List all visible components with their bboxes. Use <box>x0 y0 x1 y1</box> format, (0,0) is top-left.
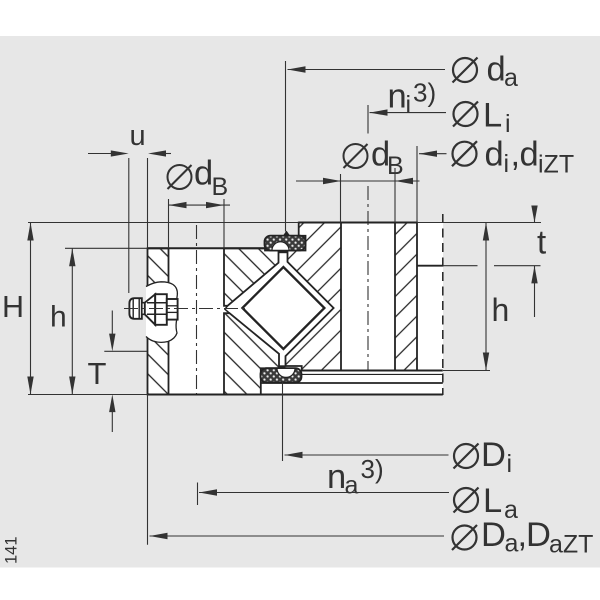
dimension h left <box>71 248 73 394</box>
ring A hatched body upper (right of bolt hole, above grease duct) <box>224 248 279 305</box>
grease nipple hex body <box>155 294 167 325</box>
seal bottom <box>261 368 302 383</box>
centre line bolt hole ring A <box>196 225 198 395</box>
dimension dB right <box>340 174 342 223</box>
svg-text:L: L <box>483 97 502 135</box>
svg-text:D: D <box>526 516 551 554</box>
svg-text:d: d <box>485 136 504 174</box>
svg-text:i: i <box>504 150 510 178</box>
dimension L_a leader with n_a <box>197 483 199 506</box>
dashed bore d_iZT <box>442 214 444 395</box>
svg-text:3): 3) <box>413 78 436 108</box>
svg-text:a: a <box>504 496 518 524</box>
groove apex notch ring A <box>225 306 230 313</box>
dimension T <box>111 311 113 335</box>
svg-text:D: D <box>481 436 506 474</box>
svg-text:i: i <box>507 450 513 478</box>
svg-text:d: d <box>487 51 506 89</box>
svg-text:H: H <box>2 290 24 324</box>
svg-text:i: i <box>505 110 511 138</box>
svg-text:B: B <box>387 152 404 180</box>
label dB left <box>168 165 192 189</box>
svg-text:T: T <box>88 356 107 391</box>
white body ring B <box>287 236 443 371</box>
spacer bar bottom <box>279 365 286 368</box>
svg-text:3): 3) <box>361 454 384 484</box>
dimension u <box>128 158 130 293</box>
svg-text:h: h <box>492 292 510 328</box>
seal bottom lip (white half-moon) <box>277 368 295 377</box>
white body ring A <box>148 248 280 394</box>
grease nipple ball tip <box>129 298 141 319</box>
dimension D_a leader <box>150 535 445 537</box>
svg-text:n: n <box>327 458 346 496</box>
centre line horizontal through nipple <box>124 308 249 310</box>
grease pocket cloud <box>146 282 177 343</box>
dimension h right <box>485 223 487 371</box>
dimension d_i leader <box>416 146 418 223</box>
svg-text:d: d <box>520 136 539 174</box>
seal top tab <box>283 231 291 237</box>
svg-text:d: d <box>194 155 213 193</box>
centre line bolt hole ring B <box>367 186 369 371</box>
svg-text:L: L <box>483 482 502 520</box>
plate thin line 1 <box>302 373 443 375</box>
dimension t <box>534 206 536 223</box>
seal top lip (white half-moon) <box>272 242 289 251</box>
dimension d_a leader <box>285 61 287 232</box>
thin line top face level A (h extension) <box>65 247 265 249</box>
svg-text:a: a <box>505 530 519 558</box>
white roller cavity (expanded diamond) <box>233 258 333 358</box>
seal top <box>265 236 306 251</box>
ring A hatched body lower (below grease duct) <box>224 313 279 394</box>
svg-text:n: n <box>388 78 407 116</box>
white roller column top <box>279 249 288 268</box>
white plates region under ring B <box>261 371 443 395</box>
ring A left edge extensions (u top / Da bottom) <box>147 158 149 248</box>
svg-text:a: a <box>504 64 518 92</box>
svg-text:i: i <box>406 91 412 119</box>
thin line T top reference <box>104 350 147 352</box>
svg-text:t: t <box>537 224 546 261</box>
plate line 2 <box>261 382 443 384</box>
grease nipple neck <box>142 303 145 315</box>
svg-text:aZT: aZT <box>549 531 593 559</box>
dimension L_i leader with n_i <box>367 105 369 134</box>
thick top face ring A <box>148 247 266 249</box>
svg-text:u: u <box>130 120 146 152</box>
grease nipple cone <box>145 294 155 325</box>
thin line top face level B (H/t extension) <box>28 222 541 224</box>
thin line step level t bottom <box>443 265 478 267</box>
thick bottom face ring B <box>302 370 443 372</box>
dimension H <box>30 223 32 395</box>
thin line bottom face A (H/h/T extension) <box>28 394 148 396</box>
dimension dB left <box>168 199 170 248</box>
thick step face ring B <box>417 265 443 267</box>
dimension D_i leader <box>282 382 284 461</box>
roller (crossed roller, diamond) <box>242 267 324 349</box>
spacer bar top <box>279 250 288 253</box>
thick top face ring B <box>299 222 417 224</box>
white roller column bottom <box>279 348 286 369</box>
thick bottom face ring A and plates <box>148 394 443 396</box>
ring B hatched body (left of bolt hole) <box>286 223 342 371</box>
svg-text:B: B <box>212 173 229 201</box>
ring A hatched left strip <box>148 248 169 394</box>
svg-text:h: h <box>50 301 67 334</box>
svg-text:D: D <box>481 516 506 554</box>
grease nipple threaded shank <box>167 299 178 320</box>
svg-text:141: 141 <box>3 536 21 564</box>
svg-text:a: a <box>345 472 359 500</box>
svg-text:iZT: iZT <box>538 151 574 179</box>
thin line bottom face B (h right extension) <box>443 370 490 372</box>
ring B hatched strip (right of bolt hole, at bore) <box>395 223 417 371</box>
